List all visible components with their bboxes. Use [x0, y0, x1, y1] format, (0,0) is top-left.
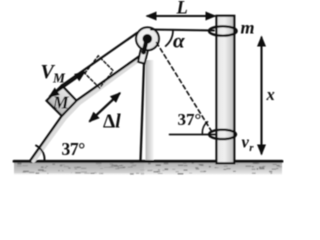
svg-text:r: r — [249, 142, 254, 154]
svg-text:α: α — [173, 29, 185, 53]
svg-text:L: L — [176, 0, 188, 19]
incline right-edge shadow — [146, 60, 154, 160]
incline hypotenuse — [30, 53, 144, 161]
ring mass m — [209, 26, 237, 35]
incline inner shading — [34, 56, 144, 161]
pulley bracket — [138, 41, 150, 64]
angle arc alpha — [166, 31, 173, 46]
svg-text:m: m — [241, 18, 255, 38]
svg-text:M: M — [52, 93, 70, 113]
svg-text:37°: 37° — [62, 139, 86, 159]
displacement arrow dl — [90, 94, 120, 122]
block M — [47, 86, 77, 116]
horizontal reference line at ring — [170, 134, 217, 136]
dashed rope position line — [157, 43, 214, 134]
distance arrow x — [260, 38, 262, 154]
pulley axle — [143, 34, 153, 44]
rope along incline — [62, 33, 137, 86]
incline right edge — [141, 58, 145, 161]
ring at lower position — [209, 130, 236, 139]
ground hatch band — [14, 162, 282, 175]
angle arc 37 (pole) — [202, 122, 207, 135]
velocity arrow V_M — [50, 73, 84, 97]
dashed ghost block — [85, 56, 113, 88]
distance arrow L — [148, 15, 215, 17]
svg-text:M: M — [52, 71, 66, 86]
svg-text:37°: 37° — [178, 110, 202, 129]
vertical pole — [217, 16, 235, 164]
pulley wheel — [136, 27, 159, 50]
svg-text:x: x — [266, 85, 275, 104]
svg-text:Δl: Δl — [103, 112, 121, 133]
angle arc 37 (incline) — [36, 146, 45, 161]
horizontal rope to ring m — [151, 30, 214, 31]
ground top line — [14, 160, 282, 163]
